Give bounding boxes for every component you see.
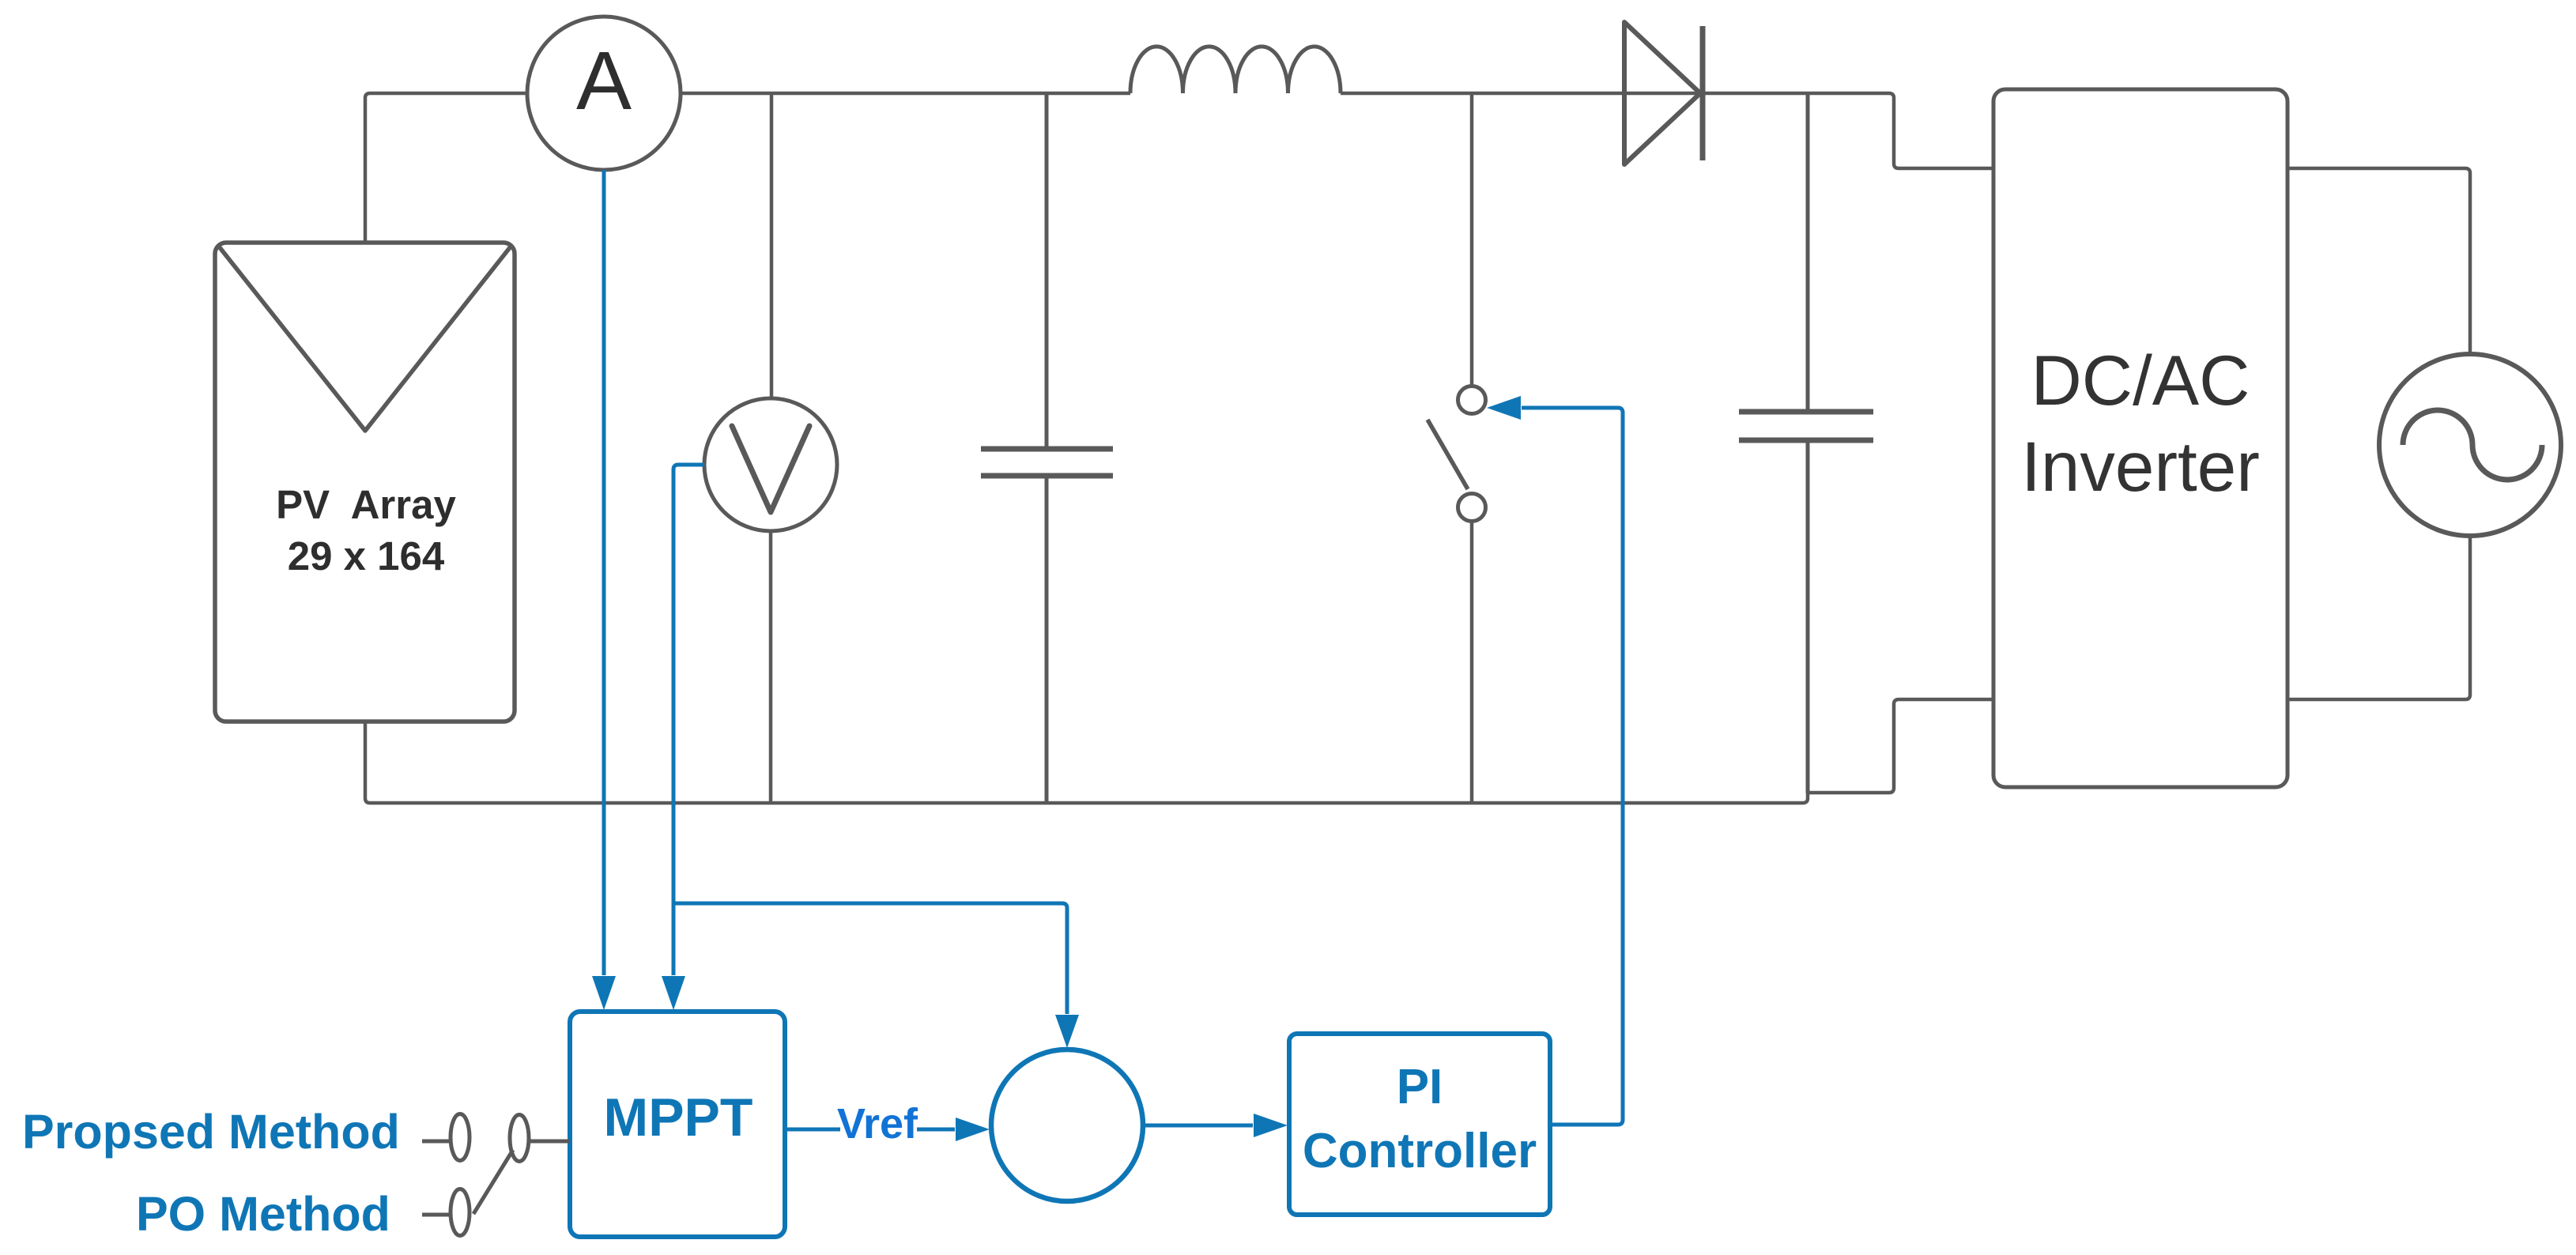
capacitor C1 plates bbox=[981, 447, 1113, 452]
arrowhead into MPPT (voltage) bbox=[662, 976, 685, 1010]
contact: common to MPPT bbox=[510, 1115, 529, 1162]
selector lever bbox=[473, 1150, 513, 1214]
wire: inverter top output to AC source bbox=[2287, 168, 2470, 354]
wire: Vref output from MPPT bbox=[785, 1128, 840, 1132]
ammeter A1 circle bbox=[527, 17, 681, 170]
capacitor C2 output bbox=[1739, 93, 1873, 793]
wire: PO method lead bbox=[422, 1213, 450, 1217]
DC/AC inverter block bbox=[1993, 89, 2287, 787]
switch top contact bbox=[1458, 386, 1486, 414]
blue sense line: ammeter current to MPPT bbox=[602, 170, 606, 975]
switch S1 (boost switch) bbox=[1428, 93, 1486, 803]
arrowhead into MPPT (current) bbox=[592, 976, 616, 1010]
wire: C1 top lead bbox=[1045, 93, 1049, 447]
svg-text:DC/AC: DC/AC bbox=[2031, 341, 2250, 420]
wire: voltmeter bottom lead to bottom bus bbox=[769, 531, 773, 803]
capacitor C1 input bbox=[981, 93, 1113, 803]
summing junction bbox=[991, 1050, 1143, 1201]
svg-text:A: A bbox=[576, 35, 632, 127]
wire: Vref arrow into summing junction bbox=[917, 1128, 955, 1132]
inductor L1 bbox=[1130, 47, 1341, 93]
svg-text:PI: PI bbox=[1397, 1060, 1443, 1114]
wire: C1 bottom lead bbox=[1045, 478, 1049, 803]
wire: switch top lead from bus bbox=[1470, 93, 1474, 386]
svg-text:Controller: Controller bbox=[1303, 1124, 1537, 1178]
arrowhead Vref bbox=[956, 1117, 990, 1141]
wire: switch bottom lead to bottom bus bbox=[1470, 522, 1474, 803]
diode D1 bbox=[1624, 22, 1703, 164]
wire: PV positive riser (top-left corner down to PV array top) bbox=[365, 93, 370, 243]
wire: junction top bus to voltmeter bbox=[770, 93, 774, 398]
PV array module bbox=[215, 243, 515, 722]
switch lever bbox=[1428, 420, 1468, 489]
capacitor C2 plates bbox=[1739, 409, 1873, 415]
wire: common lead into MPPT bbox=[529, 1140, 570, 1144]
blue control line: PI controller output up to switch gate bbox=[1522, 408, 1623, 1125]
svg-text:Vref: Vref bbox=[837, 1100, 918, 1148]
svg-text:PO Method: PO Method bbox=[136, 1187, 390, 1241]
wire: top bus inductor to step bbox=[1341, 92, 1889, 96]
svg-text:MPPT: MPPT bbox=[604, 1087, 753, 1148]
contact: PO method bbox=[451, 1189, 470, 1236]
diode D1 anode triangle bbox=[1624, 22, 1700, 164]
wire: C2 top lead bbox=[1806, 93, 1810, 409]
method selector switch bbox=[422, 1114, 570, 1236]
diode D1 cathode bar bbox=[1700, 26, 1706, 160]
svg-text:Propsed Method: Propsed Method bbox=[22, 1105, 400, 1159]
AC sine glyph bbox=[2403, 410, 2542, 480]
blue feedback branch: voltage line to summing junction bbox=[673, 903, 1067, 1014]
wire: bottom bus from C2 junction step up into inverter bbox=[1808, 699, 1993, 793]
voltmeter V1 circle bbox=[704, 398, 837, 531]
voltmeter V glyph bbox=[732, 426, 809, 512]
wire: top bus from ammeter to inverter step bbox=[681, 92, 1130, 96]
blue sense line: voltmeter to MPPT bbox=[673, 465, 704, 975]
arrowhead into PI controller bbox=[1254, 1114, 1288, 1137]
arrowhead into switch gate bbox=[1487, 396, 1521, 420]
PI controller block bbox=[1289, 1034, 1550, 1215]
svg-text:Inverter: Inverter bbox=[2021, 427, 2260, 506]
wire: top bus left segment from PV riser to ammeter bbox=[370, 92, 527, 96]
svg-text:29 x 164: 29 x 164 bbox=[288, 533, 445, 579]
MPPT block bbox=[570, 1012, 785, 1237]
wire: inverter bottom output to AC source bbox=[2287, 536, 2470, 699]
wire: bottom bus from PV to C2 junction bbox=[365, 722, 1808, 803]
wire: summing junction to PI controller bbox=[1143, 1124, 1253, 1128]
wire: top bus step down into DC/AC inverter bbox=[1889, 93, 1993, 168]
contact: proposed method bbox=[451, 1114, 470, 1161]
switch bottom contact bbox=[1458, 494, 1486, 522]
svg-text:PV Array: PV Array bbox=[276, 482, 456, 527]
AC grid source bbox=[2379, 354, 2561, 536]
wire: proposed method lead bbox=[422, 1140, 450, 1144]
arrowhead into summing junction bbox=[1055, 1015, 1079, 1048]
wire: C2 bottom lead bbox=[1806, 443, 1810, 793]
